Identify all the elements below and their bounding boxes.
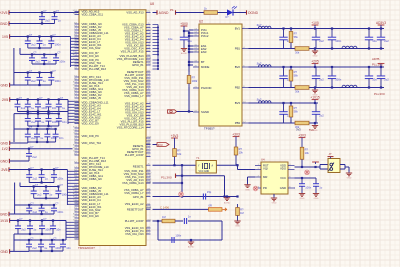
junction	[380, 47, 382, 49]
junction	[282, 27, 284, 29]
svg-text:56k: 56k	[294, 35, 299, 39]
junction	[314, 66, 316, 68]
svg-text:5V0: 5V0	[309, 128, 314, 132]
wire	[290, 84, 292, 88]
junction	[368, 86, 370, 88]
pins U4 right	[288, 164, 295, 189]
no-ERC marker	[305, 170, 310, 175]
svg-text:2u2: 2u2	[33, 210, 38, 214]
pins U2 left	[193, 28, 199, 112]
svg-text:10k: 10k	[177, 152, 182, 156]
wire	[319, 165, 321, 170]
svg-text:2u2: 2u2	[319, 78, 324, 82]
port 1V2	[2, 147, 10, 152]
svg-text:1u: 1u	[58, 18, 61, 22]
svg-text:100n: 100n	[305, 185, 311, 189]
net label PLL3V0	[161, 176, 172, 180]
capacitor C24	[41, 54, 51, 64]
svg-text:PLL1V5: PLL1V5	[372, 63, 383, 67]
svg-text:Sy?: Sy?	[257, 97, 262, 101]
svg-text:2u2: 2u2	[384, 78, 389, 82]
port GND	[0, 212, 9, 217]
ground	[234, 219, 240, 228]
svg-text:VSS_AD_F13: VSS_AD_F13	[126, 11, 144, 15]
wire rail	[20, 53, 56, 55]
designator U8	[150, 2, 154, 6]
junction	[53, 204, 55, 206]
capacitor C249	[279, 67, 291, 88]
svg-text:BV3: BV3	[235, 101, 241, 105]
svg-text:PGOOD: PGOOD	[201, 86, 211, 90]
part number text	[78, 246, 95, 250]
power flag	[328, 157, 334, 159]
resistor R24	[162, 215, 175, 223]
svg-text:GND: GND	[0, 212, 8, 216]
junction	[38, 35, 40, 37]
port	[175, 174, 177, 178]
junction	[368, 66, 370, 68]
wire	[153, 144, 158, 146]
capacitor C152	[49, 237, 62, 251]
wire +5V0	[184, 30, 189, 32]
svg-text:1u: 1u	[41, 120, 44, 124]
svg-text:+3V3: +3V3	[298, 133, 306, 137]
port GND	[1, 141, 10, 146]
wire	[10, 250, 29, 252]
wire rail	[34, 197, 59, 199]
junction	[38, 71, 40, 73]
pin names U2 left	[201, 28, 211, 114]
capacitor C110	[31, 184, 42, 198]
port	[175, 10, 177, 14]
wire	[176, 12, 205, 14]
wire pin fan bus	[66, 221, 79, 240]
power flag +1V15	[310, 95, 320, 103]
value text	[168, 37, 173, 41]
capacitor C135	[15, 218, 26, 234]
junction	[181, 164, 183, 166]
wire rail	[20, 186, 58, 188]
capacitor C266	[377, 67, 389, 88]
svg-text:100n: 100n	[335, 78, 341, 82]
junction	[51, 239, 53, 241]
wire	[348, 167, 350, 171]
capacitor C76	[34, 129, 44, 142]
power flag	[312, 162, 319, 164]
junction	[53, 168, 55, 170]
capacitor C49	[25, 100, 35, 112]
wire	[188, 87, 190, 112]
inductor L262	[342, 85, 357, 87]
wire	[9, 160, 29, 162]
wire rail	[28, 125, 59, 127]
junction	[188, 32, 190, 34]
junction	[40, 239, 42, 241]
wire	[19, 48, 21, 54]
pin names U2 right	[235, 27, 241, 126]
capacitor C18	[48, 34, 61, 48]
capacitor C101	[26, 167, 37, 183]
capacitor C115	[55, 184, 68, 198]
capacitor C238	[365, 29, 377, 49]
capacitor C79	[44, 126, 57, 142]
capacitor C36	[48, 70, 61, 85]
svg-text:PB3: PB3	[235, 121, 241, 125]
junction	[45, 197, 47, 199]
power flag	[378, 64, 385, 68]
svg-text:2u2: 2u2	[32, 155, 37, 159]
resistor R281	[295, 121, 309, 129]
svg-text:2u2: 2u2	[45, 18, 50, 22]
wire out rail	[249, 102, 319, 104]
svg-text:10u: 10u	[372, 39, 377, 43]
wire rail	[14, 113, 59, 115]
svg-text:GND: GND	[245, 189, 250, 191]
junction	[36, 128, 38, 130]
svg-text:2u2: 2u2	[31, 79, 36, 83]
svg-text:VDD_IOC_E9: VDD_IOC_E9	[82, 54, 100, 58]
jumper mark	[329, 163, 334, 172]
capacitor C64	[35, 114, 45, 126]
junction	[37, 125, 39, 127]
svg-text:Sy?: Sy?	[257, 61, 262, 65]
wire	[65, 221, 67, 241]
wire rail	[28, 47, 52, 49]
capacitor C140	[39, 218, 52, 234]
resistor R228	[295, 47, 309, 55]
pin names U8 right	[117, 11, 144, 237]
svg-text:10n: 10n	[56, 228, 61, 232]
svg-text:+2V5: +2V5	[311, 59, 319, 63]
wire 2V5 rail	[10, 99, 68, 101]
inductor L275	[257, 97, 272, 103]
svg-text:GPO_81: GPO_81	[133, 195, 144, 199]
inductor L237	[342, 46, 357, 48]
port 1V5	[2, 34, 10, 39]
wire rail	[28, 141, 56, 143]
junction	[314, 102, 316, 104]
wire	[224, 176, 226, 197]
junction	[46, 128, 48, 130]
svg-text:1V2: 1V2	[2, 147, 8, 151]
svg-text:2u2: 2u2	[31, 43, 36, 47]
svg-text:R?: R?	[240, 208, 244, 212]
capacitor C234	[328, 29, 342, 49]
junction	[27, 110, 29, 112]
junction	[37, 110, 39, 112]
ground	[224, 197, 231, 205]
junction	[27, 71, 29, 73]
junction	[55, 53, 57, 55]
wire	[27, 142, 29, 143]
part number U2	[204, 127, 215, 131]
resistor R25	[300, 140, 309, 168]
pin name PLL18T_LOOP	[125, 219, 144, 223]
svg-text:VDD_IOC_E9: VDD_IOC_E9	[82, 122, 100, 126]
junction	[52, 219, 54, 221]
junction	[380, 66, 382, 68]
svg-text:R?: R?	[177, 149, 181, 153]
svg-text:AD?B: AD?B	[372, 57, 379, 61]
ground	[312, 88, 318, 97]
svg-text:R?: R?	[294, 70, 298, 74]
designator J1	[329, 152, 332, 156]
svg-text:AGND: AGND	[188, 246, 195, 249]
port +2V5	[0, 10, 9, 15]
ground	[312, 123, 318, 132]
svg-text:C 1496: C 1496	[160, 206, 169, 210]
ic U3	[196, 161, 216, 174]
wire RESETTOUT	[153, 208, 209, 210]
port GND	[0, 249, 9, 254]
capacitor C149	[38, 240, 48, 251]
svg-text:PLL18T_LOOP: PLL18T_LOOP	[125, 153, 144, 157]
svg-text:2V5: 2V5	[2, 98, 8, 102]
wire rail	[18, 220, 66, 222]
svg-text:100n: 100n	[55, 79, 61, 83]
capacitor C106	[51, 167, 64, 183]
junction	[47, 98, 49, 100]
svg-text:VSS_CDBA_L7: VSS_CDBA_L7	[124, 94, 144, 98]
junction	[53, 11, 55, 13]
svg-text:GND: GND	[300, 198, 305, 200]
svg-text:AGND: AGND	[159, 11, 169, 15]
junction	[181, 182, 183, 184]
wire	[19, 183, 21, 187]
no-ERC marker	[253, 186, 258, 191]
svg-text:VDD_CDBA_G9: VDD_CDBA_G9	[82, 177, 103, 181]
connector pins J1	[330, 163, 333, 170]
junction	[282, 102, 284, 104]
capacitor C47	[15, 97, 26, 112]
net label PLL3V0	[374, 92, 385, 96]
junction	[31, 53, 33, 55]
capacitor C30	[180, 31, 192, 46]
svg-text:U8: U8	[150, 2, 154, 6]
wire 1V15 rail	[10, 220, 66, 222]
wire rail	[28, 36, 52, 38]
wire rail	[29, 169, 54, 171]
junction	[314, 86, 316, 88]
port AGND	[0, 21, 9, 26]
svg-text:GND: GND	[0, 250, 8, 254]
wire stub	[189, 29, 193, 31]
svg-text:BV1: BV1	[235, 27, 241, 31]
svg-text:SGND: SGND	[201, 110, 209, 114]
svg-text:Y1: Y1	[196, 156, 200, 160]
wire stub	[189, 32, 193, 34]
wire	[9, 213, 29, 215]
wire	[320, 168, 328, 170]
svg-text:GND: GND	[280, 186, 286, 190]
capacitor C124	[51, 202, 64, 214]
capacitor C15	[37, 37, 47, 49]
power flag +3V3	[298, 133, 306, 139]
svg-text:1V5: 1V5	[2, 35, 8, 39]
wire VSS bus	[153, 25, 159, 70]
inductor L247	[257, 61, 272, 67]
svg-text:+3V3: +3V3	[171, 134, 179, 138]
wire	[235, 164, 237, 166]
junction	[301, 177, 303, 179]
ground	[313, 192, 319, 200]
junction	[16, 98, 18, 100]
svg-text:GND: GND	[347, 178, 352, 180]
pins U4 left	[255, 164, 261, 189]
junction	[188, 64, 190, 66]
resistor R278	[289, 103, 298, 120]
junction	[29, 233, 31, 235]
wire	[218, 12, 228, 14]
capacitor C70	[56, 114, 67, 126]
junction	[62, 239, 64, 241]
port GND	[0, 83, 9, 88]
svg-text:PD: PD	[263, 186, 267, 190]
svg-text:15p: 15p	[207, 190, 212, 194]
svg-text:Sy?: Sy?	[257, 23, 262, 27]
junction	[45, 185, 47, 187]
junction	[181, 175, 183, 177]
wire rail	[18, 111, 59, 113]
svg-text:1V15: 1V15	[0, 219, 8, 223]
junction	[57, 185, 59, 187]
svg-text:2u2: 2u2	[319, 39, 324, 43]
wire 2V5 rail	[9, 169, 67, 171]
resistor R22	[236, 204, 244, 219]
svg-text:R?: R?	[294, 106, 298, 110]
junction	[36, 141, 38, 143]
wire AGND	[153, 12, 158, 14]
wire	[153, 182, 183, 184]
svg-text:U2: U2	[199, 20, 203, 24]
junction	[27, 98, 29, 100]
svg-text:P1L3V0: P1L3V0	[161, 176, 172, 180]
svg-text:10k: 10k	[239, 151, 244, 155]
junction	[17, 219, 19, 221]
capacitor C82	[53, 129, 64, 142]
wire	[63, 239, 66, 241]
capacitor C40	[203, 190, 211, 199]
wire GPIO_81	[153, 196, 238, 198]
svg-text:VDO: VDO	[280, 167, 287, 171]
capacitor C41	[184, 215, 191, 224]
wire SGND	[176, 111, 193, 113]
junction	[28, 204, 30, 206]
capacitor C284	[312, 103, 324, 123]
svg-text:VCC GND: VCC GND	[199, 171, 210, 173]
port GND	[0, 159, 9, 164]
svg-text:GND: GND	[314, 198, 319, 200]
svg-text:VDD_E14C_K4: VDD_E14C_K4	[82, 198, 102, 202]
svg-text:MR: MR	[263, 175, 267, 179]
svg-text:56k: 56k	[294, 74, 299, 78]
junction	[331, 47, 333, 49]
svg-text:P1: P1	[170, 8, 174, 12]
wire PLL3V0	[176, 175, 225, 177]
wire	[320, 164, 328, 166]
capacitor C33	[37, 73, 47, 86]
junction	[41, 213, 43, 215]
svg-text:J?: J?	[329, 152, 332, 156]
net label RESETTOUT	[160, 206, 169, 210]
ground	[271, 196, 277, 205]
junction	[236, 164, 238, 166]
svg-text:56k: 56k	[294, 110, 299, 114]
svg-text:3V3: 3V3	[296, 128, 301, 132]
capacitor C51	[313, 178, 323, 192]
svg-text:100n: 100n	[55, 43, 61, 47]
resistor R10	[187, 72, 198, 87]
svg-text:R?: R?	[239, 147, 243, 151]
svg-text:100n: 100n	[57, 210, 63, 214]
ground	[188, 240, 195, 249]
svg-text:10n: 10n	[59, 136, 64, 140]
svg-text:RESET1: RESET1	[133, 164, 144, 168]
junction	[40, 250, 42, 252]
svg-text:1u: 1u	[31, 106, 34, 110]
net label AD2V5	[372, 57, 379, 61]
svg-text:DGND: DGND	[248, 11, 259, 15]
capacitor C62	[25, 111, 36, 126]
svg-text:100n: 100n	[59, 60, 65, 64]
svg-text:BV2: BV2	[235, 65, 241, 69]
junction	[331, 86, 333, 88]
wire rail	[18, 99, 69, 101]
svg-text:PVin2: PVin2	[201, 34, 209, 38]
junction	[46, 141, 48, 143]
junction	[33, 185, 35, 187]
port +3V3	[157, 143, 169, 147]
svg-text:2u2: 2u2	[384, 39, 389, 43]
power flag AD3V3	[376, 21, 386, 29]
wire stub	[189, 45, 193, 47]
svg-text:1u: 1u	[45, 210, 48, 214]
svg-text:VSS_RTCCORE_L14: VSS_RTCCORE_L14	[117, 126, 144, 130]
junction	[55, 128, 57, 130]
pin names U8 left	[82, 10, 109, 219]
capacitor C112	[43, 187, 53, 199]
junction	[41, 181, 43, 183]
svg-text:2u2: 2u2	[33, 176, 38, 180]
wire rail	[29, 182, 54, 184]
svg-text:10n: 10n	[62, 120, 67, 124]
pin name GPIO_81	[133, 195, 144, 199]
osc symbol	[198, 163, 214, 173]
svg-text:1M: 1M	[162, 215, 166, 219]
wire rail	[14, 128, 56, 130]
led D1	[226, 6, 238, 19]
capacitor C67	[46, 111, 59, 126]
wire bus	[13, 234, 15, 251]
svg-text:VDD_PLLUSB_R13: VDD_PLLUSB_R13	[82, 67, 107, 71]
junction	[37, 113, 39, 115]
svg-text:0R: 0R	[209, 204, 212, 208]
wire GND	[10, 84, 28, 86]
port PG	[168, 110, 177, 113]
svg-text:1M: 1M	[240, 211, 244, 215]
junction	[331, 66, 333, 68]
svg-text:VDD_IOA_M12: VDD_IOA_M12	[82, 46, 101, 50]
svg-text:2u2: 2u2	[32, 246, 37, 250]
junction	[183, 30, 185, 32]
wire 1V5 rail	[10, 36, 71, 38]
capacitor C241	[377, 29, 389, 49]
wire	[158, 239, 222, 241]
junction	[290, 66, 292, 68]
wire	[175, 220, 183, 222]
junction	[28, 239, 30, 241]
net label P1	[170, 8, 174, 12]
